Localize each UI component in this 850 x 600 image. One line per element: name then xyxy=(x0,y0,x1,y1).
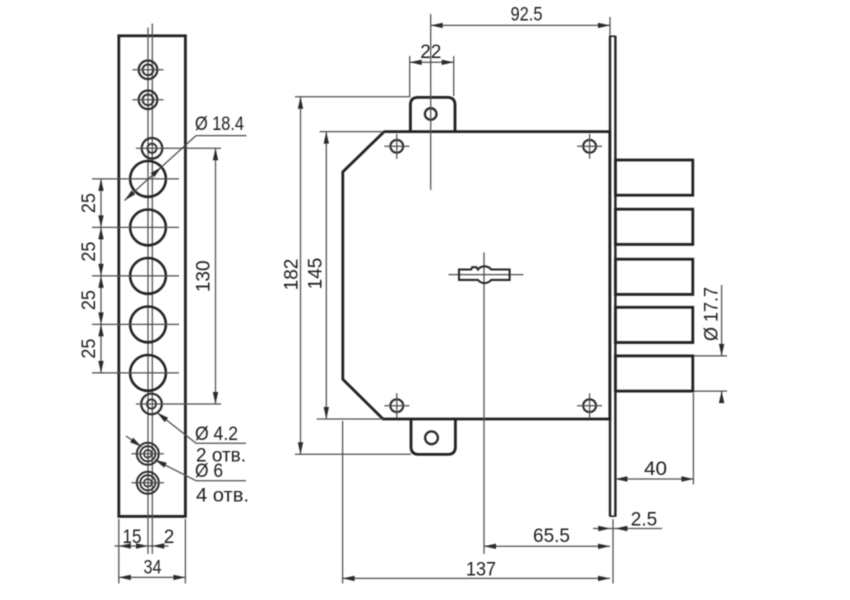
dimension 145 line xyxy=(324,132,329,419)
svg-text:Ø 6: Ø 6 xyxy=(195,461,223,482)
screw hole Ø6 top #1 xyxy=(133,61,164,80)
leader line Ø6 xyxy=(155,460,246,481)
bolt #2 xyxy=(615,209,692,244)
dimension label 182 xyxy=(282,259,303,291)
hole Ø4.2 lower xyxy=(136,394,221,415)
dimension 130 line xyxy=(213,148,218,404)
svg-text:15: 15 xyxy=(123,527,142,548)
bolt #1 xyxy=(615,160,692,195)
svg-text:Ø 4.2: Ø 4.2 xyxy=(195,424,238,445)
key profile centerlines xyxy=(449,253,524,555)
big hole Ø18.4 #5 xyxy=(92,355,179,391)
label 4 otv xyxy=(196,486,249,507)
svg-text:34: 34 xyxy=(144,558,162,579)
svg-text:4 отв.: 4 отв. xyxy=(196,486,249,507)
bolt #4 xyxy=(615,307,692,342)
svg-text:182: 182 xyxy=(282,259,303,291)
svg-text:25: 25 xyxy=(79,242,100,262)
bottom mounting tab xyxy=(411,419,455,454)
screw hole Ø6 bottom #2 xyxy=(132,472,165,494)
dimension label 92.5 xyxy=(511,5,543,26)
dimension 137 line xyxy=(343,576,610,581)
dimension label 22 xyxy=(420,42,441,63)
dimension 92.5 line xyxy=(431,23,610,28)
extension centerline tab hole xyxy=(430,14,432,190)
svg-text:25: 25 xyxy=(79,339,100,359)
dimension label 34 xyxy=(144,558,162,579)
label Ø18.4 xyxy=(195,114,244,135)
extension faceplate top xyxy=(609,17,611,36)
svg-text:2: 2 xyxy=(164,527,175,548)
dimension 22 line xyxy=(410,60,454,65)
lock body outline xyxy=(343,132,610,419)
svg-text:25: 25 xyxy=(79,290,100,310)
dimension label 40 xyxy=(644,459,667,480)
dimension 65.5 line xyxy=(484,544,610,549)
extension faceplate bottom xyxy=(612,519,614,584)
leader to bottom screw xyxy=(126,436,142,447)
svg-text:137: 137 xyxy=(466,560,496,581)
dimension chain 25 line+arrows xyxy=(98,179,103,373)
top tab hole xyxy=(425,108,437,120)
svg-text:40: 40 xyxy=(644,459,667,480)
bolt #3 xyxy=(615,259,692,294)
label Ø4.2 xyxy=(195,424,238,445)
big hole Ø18.4 #4 xyxy=(92,307,179,343)
leader line Ø4.2 xyxy=(157,413,246,444)
faceplate edge view xyxy=(610,36,615,517)
dimension label 25 #1 xyxy=(79,193,100,213)
big hole Ø18.4 #2 xyxy=(92,210,179,246)
hole Ø4.2 upper xyxy=(136,138,221,159)
faceplate outline (left view) xyxy=(119,36,186,517)
dimension label 137 xyxy=(466,560,496,581)
dimension label 17.7 xyxy=(702,287,723,341)
label Ø6 xyxy=(195,461,223,482)
screw hole Ø6 top #2 xyxy=(133,91,164,110)
svg-text:130: 130 xyxy=(194,260,215,292)
dimension label 15 xyxy=(123,527,142,548)
dimension label 25 #2 xyxy=(79,242,100,262)
body screw hole bottom-left xyxy=(384,393,409,418)
svg-text:Ø 18.4: Ø 18.4 xyxy=(195,114,244,135)
svg-text:145: 145 xyxy=(306,258,327,290)
dimension 34 line xyxy=(119,575,186,580)
svg-text:2.5: 2.5 xyxy=(631,510,657,531)
dimension label 145 xyxy=(306,258,327,290)
dimension 2.5 line xyxy=(593,526,662,531)
big hole Ø18.4 #3 xyxy=(92,258,179,294)
body screw hole top-left xyxy=(384,134,409,159)
top mounting tab xyxy=(410,97,455,131)
faceplate holes centerline xyxy=(147,28,149,555)
dimension 17.7 line xyxy=(719,285,724,403)
svg-text:92.5: 92.5 xyxy=(511,5,543,26)
key profile xyxy=(459,266,510,283)
extension line plate left edge xyxy=(118,519,120,584)
extension line bolt end xyxy=(692,393,694,485)
svg-text:22: 22 xyxy=(420,42,441,63)
dimension 15-2 line xyxy=(115,543,169,548)
dimension label 65.5 xyxy=(533,526,570,547)
extension lines 182 xyxy=(295,97,411,455)
svg-text:65.5: 65.5 xyxy=(533,526,570,547)
dimension label 130 xyxy=(194,260,215,292)
dimension label 25 #4 xyxy=(79,339,100,359)
extension lines 145 xyxy=(317,132,384,419)
dimension label 2.5 xyxy=(631,510,657,531)
extension lines 22 xyxy=(410,56,454,96)
svg-text:25: 25 xyxy=(79,193,100,213)
screw hole Ø6 bottom #1 xyxy=(132,443,165,465)
dimension label 25 #3 xyxy=(79,290,100,310)
svg-text:Ø 17.7: Ø 17.7 xyxy=(702,287,723,341)
extension line plate right edge xyxy=(184,519,186,584)
faceplate mid axis centerline xyxy=(151,24,153,555)
body screw hole top-right xyxy=(577,134,602,159)
big hole Ø18.4 #1 xyxy=(92,161,179,197)
dimension 40 line xyxy=(615,476,693,481)
bolt #5 xyxy=(615,356,692,391)
bottom tab hole xyxy=(425,431,438,444)
body screw hole bottom-right xyxy=(577,393,602,418)
extension lines 17.7 xyxy=(694,356,727,391)
extension body left edge xyxy=(342,421,344,584)
leader line Ø18.4 xyxy=(125,136,247,201)
label 2 otv xyxy=(196,446,246,467)
dimension 182 line xyxy=(298,97,303,455)
dimension label 2 xyxy=(164,527,175,548)
